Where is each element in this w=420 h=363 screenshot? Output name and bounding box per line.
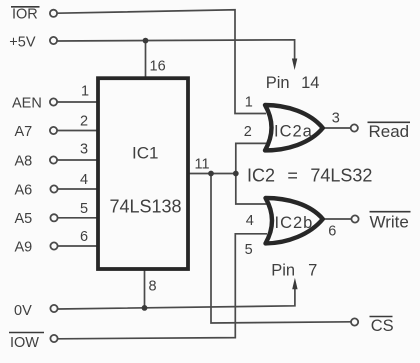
svg-text:AEN: AEN [12, 95, 42, 111]
wire A8 stub [58, 159, 99, 161]
wire A9 stub [58, 245, 99, 247]
svg-text:6: 6 [80, 229, 88, 245]
svg-text:0V: 0V [14, 303, 32, 319]
junction pin11 branch B [233, 171, 239, 177]
wire 0V line [58, 289, 295, 310]
svg-text:Pin 7: Pin 7 [271, 261, 317, 279]
junction pin8 node [142, 305, 148, 311]
svg-text:4: 4 [80, 172, 88, 188]
svg-text:16: 16 [150, 59, 166, 75]
wire A6 stub [58, 188, 99, 190]
wire branch pin4 [236, 174, 267, 205]
terminal Write [351, 215, 358, 222]
overline IOR [11, 6, 40, 8]
terminal +5V [50, 37, 57, 44]
svg-text:Read: Read [369, 122, 410, 141]
or-gate IC2b [266, 198, 323, 243]
overline Write [370, 211, 411, 213]
or-gate IC2a [265, 105, 323, 150]
svg-text:IOW: IOW [10, 335, 39, 351]
junction pin16 node [143, 38, 149, 44]
svg-text:Pin 14: Pin 14 [266, 74, 320, 92]
svg-text:11: 11 [195, 157, 210, 173]
svg-text:5: 5 [245, 242, 253, 258]
terminal 0V [50, 305, 57, 312]
svg-text:1: 1 [245, 95, 253, 111]
wire pin8 [144, 269, 146, 308]
wire Write output [322, 218, 351, 220]
terminal AEN [50, 98, 57, 105]
svg-text:6: 6 [328, 224, 336, 240]
wire +5V line [58, 40, 295, 60]
svg-text:4: 4 [246, 213, 254, 229]
junction pin11 branch A [208, 171, 214, 177]
svg-text:8: 8 [149, 279, 157, 295]
terminal A8 [50, 156, 57, 163]
svg-text:IC2 = 74LS32: IC2 = 74LS32 [247, 166, 372, 186]
svg-text:+5V: +5V [9, 35, 36, 51]
wire branch pin2 [236, 143, 267, 173]
overline IOW [9, 332, 44, 334]
wire pin11 [188, 173, 236, 175]
svg-text:IC2b: IC2b [275, 214, 314, 232]
wire Read output [322, 127, 351, 129]
terminal A6 [50, 185, 57, 192]
svg-text:IC2a: IC2a [274, 123, 313, 141]
wire IOR line [58, 10, 267, 114]
svg-text:3: 3 [332, 111, 340, 127]
svg-text:2: 2 [244, 124, 252, 140]
svg-text:A8: A8 [15, 153, 33, 169]
overline CS [370, 316, 393, 318]
svg-text:IOR: IOR [12, 7, 38, 23]
terminal IOR [50, 10, 57, 17]
arrowhead to pin 14 [292, 59, 297, 71]
wire A5 stub [58, 217, 99, 219]
svg-text:CS: CS [371, 317, 394, 335]
svg-text:Write: Write [370, 213, 409, 232]
svg-text:A9: A9 [15, 239, 33, 255]
svg-text:2: 2 [80, 114, 88, 130]
svg-text:1: 1 [81, 84, 89, 100]
wire AEN stub [58, 101, 99, 103]
svg-text:A7: A7 [15, 124, 33, 140]
svg-text:5: 5 [80, 201, 88, 217]
IC U1 74LS138 box [98, 78, 188, 269]
wire IOW line to pin5 [58, 234, 267, 339]
terminal A9 [50, 242, 57, 249]
terminal A5 [50, 214, 57, 221]
svg-text:A6: A6 [15, 182, 33, 198]
svg-text:IC1: IC1 [132, 144, 158, 163]
wire branch to CS [211, 174, 351, 324]
terminal Read [351, 124, 358, 131]
svg-text:3: 3 [80, 142, 88, 158]
svg-text:74LS138: 74LS138 [110, 197, 182, 217]
terminal CS [351, 318, 358, 325]
wire pin16 [145, 41, 147, 79]
svg-text:A5: A5 [15, 211, 33, 227]
overline Read [368, 121, 411, 123]
wire A7 stub [58, 130, 99, 132]
arrowhead to pin 7 [292, 278, 297, 290]
terminal IOW [50, 335, 57, 342]
terminal A7 [50, 127, 57, 134]
